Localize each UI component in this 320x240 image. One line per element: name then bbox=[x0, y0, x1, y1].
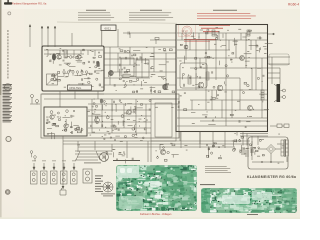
red underlined note bbox=[184, 39, 216, 40]
bottom bus wires bbox=[63, 132, 250, 189]
audio amplifier box outline bbox=[176, 25, 268, 132]
alignment wheel caption bbox=[101, 194, 115, 197]
transformer core bbox=[284, 139, 287, 157]
left margin tint bbox=[0, 0, 24, 219]
switch assembly parts bbox=[106, 151, 134, 163]
fold rule line bbox=[57, 22, 177, 23]
AF output stage parts bbox=[157, 144, 179, 161]
printed note block A bbox=[78, 12, 114, 20]
power supply components bbox=[250, 140, 265, 157]
transistor pinout package 2 bbox=[41, 171, 48, 184]
caption above main PCB bbox=[113, 160, 140, 161]
margin ring mark middle bbox=[4, 84, 11, 91]
output stub arrow bbox=[268, 33, 275, 35]
coupling wires below tuner bbox=[42, 91, 104, 107]
AF output transistor bbox=[160, 149, 165, 154]
amplifier input stage stubs bbox=[182, 33, 251, 50]
detector transistor bbox=[95, 118, 100, 123]
pinout package wide bbox=[83, 169, 92, 183]
filter resistor bbox=[247, 30, 250, 36]
output transistor T10 bbox=[240, 56, 245, 61]
left scan edge dark top bbox=[0, 0, 1, 95]
FM RF transistor bbox=[57, 55, 61, 59]
speaker terminals bbox=[281, 89, 286, 99]
IF transistor T3 bbox=[109, 71, 114, 76]
pinout legend arrows bbox=[33, 163, 75, 170]
AM tuner box outline bbox=[44, 107, 87, 136]
power supply box outline bbox=[248, 137, 288, 169]
notes beside PCB bbox=[205, 166, 231, 173]
driver stage sub-box bbox=[180, 63, 207, 88]
AM transistor T5 bbox=[50, 115, 54, 119]
wire to amplifier top bbox=[123, 33, 176, 44]
IF filter can 1 bbox=[121, 58, 134, 76]
shielded FM coil right bbox=[96, 61, 99, 67]
AM-IF outer enclosure bbox=[41, 94, 179, 138]
dial cord line bbox=[71, 33, 73, 46]
drop wires to bottom assembly bbox=[181, 132, 225, 148]
preamp transistor T7 bbox=[184, 45, 188, 49]
mains transformer primary bbox=[281, 140, 284, 156]
middle band bus wires bbox=[44, 99, 179, 133]
FM oscillator coil bbox=[64, 50, 67, 58]
AGC transistor bbox=[127, 110, 132, 115]
transistor pinout package 3 bbox=[51, 171, 58, 184]
chassis lug bbox=[60, 188, 66, 195]
arrow to chassis bbox=[62, 186, 65, 190]
margin imprint text block bbox=[3, 84, 13, 122]
margin vertical caption bbox=[7, 30, 8, 79]
audio box bus wires bbox=[177, 33, 267, 126]
caption under long PCB bbox=[247, 213, 258, 216]
nested screen box outer bbox=[151, 99, 176, 141]
IF filter can 2 bbox=[136, 60, 149, 77]
load resistor bbox=[261, 90, 264, 100]
audio amplifier components bbox=[178, 29, 273, 128]
semiconductor type list bbox=[95, 176, 103, 192]
note block A heading bbox=[86, 9, 106, 12]
red note block C bbox=[197, 13, 256, 19]
transistor pinout package 5 bbox=[71, 171, 78, 184]
scattered value labels bbox=[46, 27, 284, 163]
caption above long PCB bbox=[200, 183, 215, 186]
connector box bbox=[269, 54, 289, 65]
top margin tint bbox=[0, 0, 300, 9]
AM transistor T6 bbox=[64, 124, 68, 128]
resistor on top wire bbox=[155, 38, 159, 40]
FM tuner label box bbox=[68, 85, 92, 90]
supply resistor bbox=[212, 30, 215, 36]
shielded detector coil bbox=[100, 99, 103, 104]
bottom scan edge bbox=[0, 217, 300, 219]
dial mechanism caption bbox=[84, 162, 101, 165]
red approval stamp frame bbox=[179, 25, 196, 37]
trimmer row bbox=[63, 71, 88, 76]
emitter resistor bbox=[206, 72, 209, 80]
driver transistor T9 bbox=[217, 85, 223, 91]
output transistor T11 bbox=[248, 106, 253, 111]
transistor pinout package 1 bbox=[31, 171, 38, 184]
loudspeaker bbox=[277, 84, 281, 102]
antenna input arrows bbox=[29, 25, 56, 48]
printed note block B bbox=[129, 12, 173, 20]
transistor pinout package 4 bbox=[61, 171, 68, 184]
IF strip components bbox=[109, 49, 175, 94]
smoothing capacitors bbox=[242, 147, 253, 157]
FM tuner box outline bbox=[42, 46, 104, 91]
red stamp annotation lines bbox=[199, 25, 230, 32]
nested screen box inner bbox=[155, 103, 172, 137]
margin ring mark top bbox=[8, 12, 11, 15]
voltage selector parts bbox=[206, 142, 221, 159]
vertical feed wire bbox=[117, 29, 119, 47]
note block B heading bbox=[140, 9, 162, 12]
IF transistor T4 bbox=[162, 84, 167, 89]
tuner top bus bbox=[44, 50, 103, 56]
registration triangle mark bbox=[4, 2, 12, 4]
AM-IF band components bbox=[91, 100, 151, 141]
shielded FM transistor bbox=[52, 53, 56, 60]
IF strip bus wires bbox=[104, 47, 176, 85]
FM tuner components bbox=[47, 49, 103, 91]
arrow labels bbox=[32, 160, 76, 163]
antenna matching parts bbox=[30, 95, 40, 105]
shield over IF transistor T4 bbox=[163, 84, 167, 90]
diode legend symbols bbox=[30, 151, 36, 162]
dial drive mechanism bbox=[75, 151, 112, 160]
left scan edge shadow bbox=[0, 0, 2, 219]
wires to speaker bbox=[268, 57, 290, 84]
red approval stamp circle bbox=[182, 26, 192, 36]
note block C heading bbox=[213, 9, 237, 12]
mains selector parts bbox=[270, 124, 289, 127]
FM mixer transistor bbox=[77, 55, 81, 59]
dial drum bbox=[100, 153, 109, 162]
capacitor on top wire bbox=[128, 32, 129, 35]
driver transistor T8 bbox=[198, 82, 204, 88]
bias resistor bbox=[188, 76, 191, 84]
mains transformer secondary bbox=[286, 140, 289, 156]
feed wires above power supply bbox=[237, 132, 268, 146]
shield over IF transistor T3 bbox=[109, 70, 113, 76]
margin ring mark lower bbox=[6, 136, 11, 141]
bridge rectifier bbox=[258, 145, 281, 154]
rectifier feed components bbox=[232, 137, 247, 154]
power supply internal wires bbox=[252, 141, 287, 163]
AM tuner components bbox=[46, 110, 83, 139]
label box 6011 bbox=[101, 25, 116, 31]
margin dot mark bottom bbox=[5, 190, 10, 195]
tuning capacitor block bbox=[47, 74, 58, 85]
alignment wheel stamp bbox=[103, 182, 113, 192]
